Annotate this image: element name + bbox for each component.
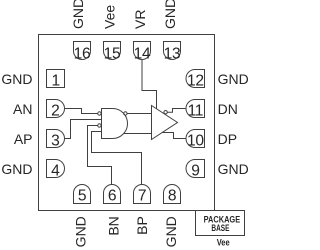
wire AN pin2 to gate	[65, 109, 98, 114]
pin 1	[47, 70, 65, 90]
svg-text:11: 11	[188, 102, 204, 119]
svg-text:GND: GND	[1, 161, 32, 177]
svg-text:15: 15	[104, 45, 121, 62]
svg-text:DP: DP	[218, 131, 237, 147]
wire BN gate to pin6	[88, 126, 112, 185]
svg-text:GND: GND	[73, 216, 89, 247]
svg-text:2: 2	[51, 102, 59, 119]
svg-text:GND: GND	[163, 216, 179, 247]
pin 8	[164, 185, 181, 205]
svg-text:BASE: BASE	[211, 223, 229, 233]
pin 14	[134, 42, 151, 63]
svg-text:12: 12	[187, 72, 204, 89]
svg-text:AP: AP	[14, 131, 33, 147]
svg-text:6: 6	[108, 188, 116, 205]
svg-text:Vee: Vee	[102, 5, 118, 29]
svg-text:GND: GND	[218, 161, 249, 177]
svg-text:GND: GND	[218, 71, 249, 87]
package base box	[196, 211, 245, 236]
svg-text:GND: GND	[70, 0, 86, 29]
pin 3	[47, 130, 65, 150]
svg-text:Vee: Vee	[217, 237, 230, 248]
svg-text:13: 13	[164, 45, 181, 62]
and gate U2	[102, 109, 128, 139]
svg-text:BN: BN	[106, 216, 122, 235]
wire gate out top to buffer	[127, 113, 151, 115]
svg-text:3: 3	[51, 132, 59, 149]
svg-text:AN: AN	[13, 101, 32, 117]
pin 10	[186, 130, 205, 150]
gate input bubble AN	[98, 112, 101, 115]
buffer triangle U3	[152, 106, 178, 140]
svg-text:5: 5	[78, 188, 87, 205]
pin 12	[186, 70, 205, 90]
wire VR pin14 to buffer	[142, 60, 157, 109]
wire gate out bottom to buffer	[124, 133, 152, 135]
pin 6	[104, 185, 121, 205]
pin 9	[186, 160, 205, 180]
pin 4	[47, 160, 65, 180]
svg-text:BP: BP	[134, 216, 150, 235]
pin 7	[134, 185, 151, 205]
svg-text:4: 4	[51, 162, 60, 179]
svg-text:8: 8	[168, 188, 176, 205]
pin 16	[74, 42, 91, 63]
wire BP gate to pin7	[92, 132, 142, 185]
svg-text:GND: GND	[162, 0, 178, 29]
wire AP pin3 to gate	[65, 120, 102, 139]
gate input bubble BN	[98, 124, 101, 127]
pin 5	[74, 185, 91, 205]
svg-text:9: 9	[191, 162, 199, 179]
IC body outline U1	[39, 35, 215, 211]
svg-text:VR: VR	[132, 10, 148, 29]
pin 15	[104, 42, 121, 63]
wire DP to pin10	[162, 133, 186, 139]
buffer output bubble DN	[164, 111, 167, 114]
svg-text:16: 16	[74, 45, 91, 62]
pin 13	[164, 42, 181, 63]
pin 11	[186, 100, 205, 120]
pin 2	[47, 100, 65, 120]
svg-text:7: 7	[138, 188, 146, 205]
svg-text:10: 10	[187, 132, 204, 149]
svg-text:14: 14	[134, 45, 151, 62]
svg-text:1: 1	[52, 72, 60, 89]
wire DN to pin11	[167, 109, 186, 113]
svg-text:GND: GND	[1, 71, 32, 87]
svg-text:DN: DN	[218, 101, 238, 117]
gate output bubble	[124, 112, 127, 115]
